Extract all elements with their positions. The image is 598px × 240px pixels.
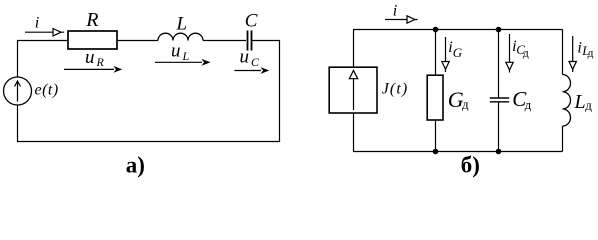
svg-text:u: u — [171, 41, 181, 62]
svg-text:L: L — [176, 14, 188, 35]
current arrow i (circuit a) — [25, 29, 64, 36]
wire R to L — [117, 40, 158, 42]
svg-text:R: R — [85, 9, 98, 31]
node: top junction C branch — [496, 27, 502, 33]
wire: top bus circuit b — [353, 29, 563, 31]
wire: left side circuit b lower — [353, 113, 355, 152]
wire above C_d — [498, 30, 500, 99]
inductor L_d — [563, 75, 571, 127]
svg-text:д: д — [585, 98, 592, 113]
wire below C_d — [498, 102, 500, 152]
svg-text:C: C — [245, 11, 258, 32]
label i_Ld — [577, 40, 593, 60]
inductor L — [158, 33, 203, 40]
svg-text:i: i — [35, 15, 39, 32]
label u_L — [171, 41, 190, 64]
current arrow i_G — [442, 37, 449, 72]
svg-text:i: i — [577, 40, 581, 57]
wire L to C — [203, 40, 246, 42]
svg-text:u: u — [85, 47, 95, 68]
voltage source e(t) — [4, 77, 32, 105]
wire below G box — [435, 120, 437, 152]
svg-text:д: д — [588, 47, 594, 59]
node: bottom junction C branch — [496, 149, 502, 155]
capacitor C — [248, 31, 252, 51]
svg-text:б): б) — [461, 153, 480, 178]
svg-text:C: C — [251, 55, 260, 69]
svg-text:д: д — [523, 47, 529, 59]
wire above G box — [435, 30, 437, 76]
label u_R — [85, 47, 105, 69]
wire: right side circuit b upper — [562, 30, 564, 75]
node: top junction G branch — [433, 27, 439, 33]
voltage arrow u_R — [64, 66, 122, 73]
svg-text:u: u — [240, 47, 250, 68]
label C_d — [512, 87, 531, 112]
voltage arrow u_C — [235, 67, 270, 74]
svg-text:L: L — [182, 49, 190, 63]
svg-text:д: д — [525, 97, 532, 112]
wire: right side circuit b lower — [562, 126, 564, 151]
svg-text:L: L — [574, 91, 586, 113]
wire: bottom bus circuit b — [353, 151, 563, 153]
label u_C — [240, 47, 261, 70]
current arrow i (circuit b) — [385, 16, 418, 23]
current arrow i_L — [569, 36, 576, 72]
svg-text:e(t): e(t) — [35, 82, 59, 99]
wire: left side circuit b upper — [353, 30, 355, 68]
svg-text:д: д — [462, 97, 469, 112]
capacitor C_d — [490, 98, 509, 102]
svg-text:а): а) — [126, 153, 145, 178]
wire: bottom of loop a — [17, 141, 280, 143]
voltage arrow u_L — [155, 59, 211, 66]
svg-text:R: R — [96, 55, 105, 69]
svg-text:i: i — [393, 3, 397, 20]
wire: lower-left segment loop a — [17, 105, 19, 142]
label i_G — [448, 39, 462, 60]
label i_Cd — [512, 38, 529, 59]
svg-text:G: G — [453, 45, 463, 60]
label L_d — [574, 91, 593, 113]
wire: top-left segment loop a — [18, 41, 69, 78]
current source J(t) — [329, 67, 377, 113]
conductance G_d — [427, 75, 443, 120]
svg-text:J(t): J(t) — [382, 81, 409, 98]
wire C to top-right corner and right side of loop a — [252, 41, 280, 142]
current arrow i_C — [506, 34, 513, 73]
resistor R — [68, 31, 117, 49]
label G_d — [448, 87, 469, 112]
node: bottom junction G branch — [433, 149, 439, 155]
